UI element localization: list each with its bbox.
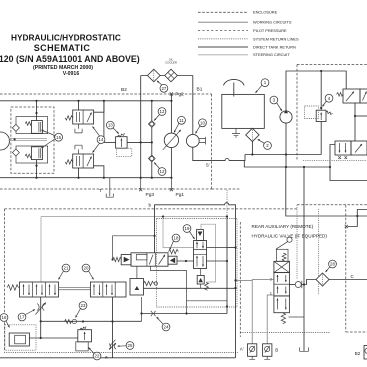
aux valve bottom spring <box>281 313 285 324</box>
rear aux enclosure right dashed <box>345 205 347 332</box>
svg-text:16: 16 <box>2 315 7 320</box>
damper 23 ball <box>72 319 76 323</box>
oil filter 16 dashed box <box>5 325 36 350</box>
svg-text:11: 11 <box>179 118 184 123</box>
junction dot strainer <box>251 153 253 155</box>
svg-text:V-0916: V-0916 <box>63 71 80 77</box>
priority valve arrows <box>339 143 341 153</box>
towing lower feed <box>78 168 80 178</box>
shuttle column wire <box>151 101 153 178</box>
svg-text:COOLER: COOLER <box>165 61 177 65</box>
bubble 18 <box>170 234 180 250</box>
svg-text:12: 12 <box>160 169 165 174</box>
bubble 12 upper <box>154 108 166 121</box>
filter 28 outlet wire <box>329 279 367 281</box>
motor case drain wire <box>193 147 245 160</box>
bubble 28 <box>326 260 337 272</box>
junction dot relief lower <box>35 165 37 167</box>
valve 18 window <box>136 255 147 260</box>
valve18 to valve19 wire <box>177 260 194 262</box>
b supply wire <box>155 203 236 358</box>
svg-text:ENCLOSURE: ENCLOSURE <box>253 10 278 15</box>
valve 21 spool arrows <box>23 285 25 296</box>
svg-text:WORKING CIRCUITS: WORKING CIRCUITS <box>253 20 292 25</box>
drive motor circle <box>186 134 199 147</box>
junction dot relief upper <box>35 112 37 114</box>
aux feed port x <box>345 225 348 228</box>
drive pump variable arrow <box>163 130 181 150</box>
bubble 25 <box>118 342 134 350</box>
junction dot relief4 top <box>320 107 322 109</box>
svg-text:DIRECT TANK RETURN: DIRECT TANK RETURN <box>253 44 296 49</box>
check valve ball <box>295 282 301 288</box>
hydrostatic enclosure top dashed <box>0 93 212 95</box>
bubble 4 <box>323 94 333 106</box>
svg-text:Pg2: Pg2 <box>175 91 184 97</box>
bubble 2 <box>258 139 272 149</box>
gauge stub Pg3 <box>140 178 142 190</box>
junction dot charge top <box>320 70 322 72</box>
towing upper loop <box>94 101 104 112</box>
LEGEND <box>198 10 299 58</box>
tank drain stub <box>232 128 240 137</box>
aux branch up wire <box>357 210 367 217</box>
oil cooler diamond <box>165 69 178 82</box>
junction dot return cross <box>285 166 287 168</box>
reservoir breather arc <box>224 79 245 85</box>
bubble 24 <box>157 317 170 331</box>
solenoid valve 5 spring <box>337 93 344 97</box>
lower return wire <box>244 161 330 167</box>
valve 18 check cap <box>168 256 177 264</box>
relief valve upper body <box>31 121 42 134</box>
bubble 10 <box>196 119 207 134</box>
charge pump top wire <box>286 71 321 111</box>
valve 19 bypass wire <box>201 224 216 282</box>
valve 19 cap wire <box>200 269 202 276</box>
rear aux enclosure left dashed <box>239 222 241 337</box>
pilot dashed to right edge <box>297 204 367 206</box>
legend pilot pressure line <box>198 29 248 31</box>
junction dot valve5 <box>354 115 356 117</box>
valve 18 drain wire <box>150 266 186 313</box>
junction dot check outlet <box>303 283 305 285</box>
towing lower loop <box>94 166 104 178</box>
junction dot port2 branch <box>234 279 236 281</box>
bubble 22 <box>89 348 101 360</box>
bubble 3 <box>270 96 282 111</box>
valve 19 solenoid box <box>197 230 204 241</box>
aux body divider <box>274 283 290 285</box>
aux valve X box <box>274 261 290 272</box>
svg-text:B: B <box>275 348 278 353</box>
charge relief 13 left wire <box>104 141 116 143</box>
relief upper feed <box>36 101 38 121</box>
lower enclosure top dashed <box>5 208 298 210</box>
cooler bypass filter diamond <box>148 69 161 82</box>
priority valve bottom ports x <box>338 156 347 159</box>
charge relief 13 spring <box>118 133 125 137</box>
bubble 21 <box>59 264 70 279</box>
oil filter 16 inner rect <box>15 335 26 344</box>
legend direct tank return line <box>198 46 248 48</box>
svg-text:b: b <box>149 203 152 208</box>
junction dots hydro top <box>35 100 172 102</box>
svg-text:13: 13 <box>108 123 113 128</box>
bottom return wire <box>41 320 142 322</box>
svg-text:15: 15 <box>56 135 61 140</box>
charge relief 13 box <box>116 137 128 149</box>
inner control valve dashed box <box>157 219 238 308</box>
svg-text:REAR AUXILIARY (REMOTE): REAR AUXILIARY (REMOTE) <box>252 224 314 229</box>
aux valve body upper <box>274 273 290 296</box>
towing upper feed <box>78 101 80 110</box>
hydrostatic drive pump <box>164 133 178 147</box>
svg-text:A': A' <box>240 347 244 352</box>
aux X cross <box>274 261 290 272</box>
bubble 13 <box>106 121 118 133</box>
solenoid valve 5 box right <box>360 89 367 103</box>
hydrostatic enclosure right dashed <box>211 94 213 189</box>
drain loop top wire <box>187 300 228 302</box>
aux return riser wire <box>303 167 305 285</box>
junction dot drop <box>40 320 42 322</box>
aux valve body lower <box>274 296 290 313</box>
charge relief 13 arrow <box>120 139 122 148</box>
svg-text:20: 20 <box>84 266 89 271</box>
breather stem <box>233 83 235 97</box>
valve 18 dividers <box>147 253 155 266</box>
valve 21 body <box>20 282 59 297</box>
junction dot priority drain <box>329 166 331 168</box>
port relief spring <box>144 281 154 285</box>
svg-text:SCHEMATIC: SCHEMATIC <box>34 43 91 53</box>
svg-text:25: 25 <box>128 343 133 348</box>
port 2 branch wire <box>236 279 253 281</box>
lower enclosure bottom solid <box>0 357 236 359</box>
junction dot aux feed <box>356 215 358 217</box>
ENCLOSURES <box>0 65 367 358</box>
charge relief 4 spring <box>326 111 333 114</box>
hydrostatic enclosure bottom dashed <box>0 188 212 190</box>
svg-text:14: 14 <box>99 137 104 142</box>
svg-text:S': S' <box>206 163 210 168</box>
filter 28 dashes <box>322 275 324 285</box>
clipped coupler B2 circle <box>365 348 367 353</box>
charge pump triangle <box>284 110 288 113</box>
junction dot drop lower <box>40 337 42 339</box>
pilot dashed continuation right of enclosure <box>212 188 240 190</box>
spring drain wire <box>289 316 305 318</box>
junction dot servo <box>14 138 16 140</box>
valve 20 body <box>90 282 126 297</box>
towing valve lower box <box>73 154 94 168</box>
oil cooler wire <box>141 75 193 77</box>
svg-text:T120 (S/N A59A11001 AND ABOVE): T120 (S/N A59A11001 AND ABOVE) <box>0 54 140 64</box>
rear aux dashed left vertical <box>296 205 298 280</box>
tank stub T <box>106 178 113 198</box>
svg-text:C: C <box>351 274 355 279</box>
valve 19 bottom cap <box>197 276 204 285</box>
valve 20 dividers <box>103 282 115 297</box>
charge pump outlet wire <box>285 123 287 167</box>
bubble 15 <box>42 130 63 148</box>
svg-text:19: 19 <box>185 226 190 231</box>
towing lower spool lines <box>76 156 79 166</box>
svg-text:28: 28 <box>330 262 335 267</box>
valve 20 spool arrows <box>93 285 95 296</box>
towing valve lower divider <box>82 154 84 168</box>
suction strainer diamond <box>246 128 259 141</box>
valve 19 cap triangle <box>198 278 203 282</box>
pump feed wire Pg2 <box>170 94 172 133</box>
lower enclosure bottom dashed <box>4 352 238 354</box>
motor shaft <box>199 137 205 145</box>
valve 19 spool arrows <box>196 242 198 249</box>
orifice 24 <box>151 311 156 316</box>
charge relief 4 box <box>316 110 326 121</box>
valve 19 feed wire <box>207 247 228 249</box>
valve 18 solenoid coil <box>113 257 122 261</box>
towing valve lower spring <box>65 160 72 164</box>
steering gray branch <box>163 217 194 248</box>
servo gray line upper <box>9 138 48 140</box>
steering priority valve box right <box>351 141 367 155</box>
strainer dashes <box>251 130 253 140</box>
junction dot return riser top <box>303 166 305 168</box>
control pilot dashed drop <box>226 190 228 217</box>
port relief out wire <box>144 287 236 289</box>
strainer outlet wire <box>251 142 253 155</box>
charge relief 13 pilot dashed box <box>117 148 132 156</box>
valve 21 dividers <box>33 282 46 297</box>
bubble 14 <box>93 127 105 153</box>
aux lever arm <box>276 242 288 250</box>
valve 5 arrows <box>346 92 354 102</box>
junction dot pilot branch <box>153 235 155 237</box>
bubble 16 <box>0 314 9 328</box>
gauge port Pg1 x <box>170 188 173 191</box>
check valve seat <box>301 281 303 288</box>
aux lever knob <box>287 237 292 242</box>
svg-text:24: 24 <box>164 325 169 330</box>
check diamond lower <box>12 149 19 156</box>
control feed column wire <box>226 217 228 314</box>
relief 22 arrow <box>84 332 86 340</box>
towing upper spool lines <box>76 112 79 122</box>
aux body arrows lower <box>277 299 279 310</box>
check valve inlet wire <box>289 284 295 286</box>
junction dots hydro mid <box>140 141 153 143</box>
pump group dashed box <box>11 107 54 173</box>
charge relief 4 arrow <box>320 113 322 121</box>
coupler B foot <box>264 356 270 359</box>
valve 18 solenoid triangle <box>124 257 130 263</box>
RIGHT TOP <box>305 71 367 167</box>
valve 18 spring <box>169 249 179 253</box>
svg-text:Pg1: Pg1 <box>176 192 185 198</box>
aux body arrows upper <box>277 275 279 282</box>
relief manifold lower outline <box>16 146 48 163</box>
orifice wire lower <box>142 313 228 315</box>
relief lower spool lines <box>39 148 41 158</box>
bubble 1 <box>256 79 269 93</box>
RETURN LINES <box>244 153 367 295</box>
svg-text:HYDRAULIC VALVE (IF EQUIPPED): HYDRAULIC VALVE (IF EQUIPPED) <box>252 234 328 239</box>
valve 21 spring <box>7 285 19 291</box>
junction dot supply col lower <box>234 287 236 289</box>
valve 18 solenoid box <box>121 255 131 265</box>
svg-text:23: 23 <box>81 303 86 308</box>
relief valve lower body <box>31 147 42 160</box>
steering gray wire horizontal <box>41 216 227 218</box>
oil filter 16 outer rect <box>9 333 29 346</box>
svg-text:2: 2 <box>270 277 273 282</box>
gauge stub Pg1 <box>170 178 172 190</box>
B2 wire vertical <box>140 76 142 178</box>
valve 21 drop wire <box>40 297 42 338</box>
towing upper drain glyph <box>75 124 82 133</box>
valve 19 divider <box>194 249 207 254</box>
towing valve upper box <box>73 110 94 124</box>
case drain filter 28 diamond <box>316 273 329 286</box>
charge pump circle <box>280 111 292 123</box>
relief 22 spring <box>80 326 86 329</box>
svg-text:21: 21 <box>64 266 69 271</box>
coupler A circle <box>250 346 255 351</box>
svg-text:SYSTEM RETURN LINES: SYSTEM RETURN LINES <box>253 36 299 41</box>
svg-text:12: 12 <box>160 109 165 114</box>
charge relief 4 outlet <box>320 122 322 155</box>
rear aux enclosure corner dashed <box>346 331 367 333</box>
clipped coupler B2 box <box>364 346 367 360</box>
valve 18 spool arrows <box>159 255 166 265</box>
return wire bottom <box>0 177 171 179</box>
steering enclosure top dashed <box>297 64 367 66</box>
relief 22 box <box>78 330 92 342</box>
towing valve upper spring <box>65 116 72 120</box>
svg-text:B2: B2 <box>355 351 361 356</box>
coupler B box <box>263 344 272 357</box>
bubble 27 <box>157 81 168 92</box>
svg-text:a: a <box>105 354 108 359</box>
rear aux dashed mid vertical <box>318 209 320 295</box>
pilot branch wire to valve 18 solenoid <box>113 236 155 260</box>
relief 22 lower box <box>76 342 88 351</box>
svg-text:27: 27 <box>161 86 166 91</box>
aux valve stem box <box>276 249 288 261</box>
filter diamond dashes <box>153 71 155 81</box>
svg-text:STEERING CIRCUIT: STEERING CIRCUIT <box>253 52 290 57</box>
port relief triangle <box>135 286 140 290</box>
feed wire extension <box>227 247 236 249</box>
port 2 wire <box>252 280 274 344</box>
restrictor 25 <box>109 340 116 350</box>
charge supply wire top <box>0 100 171 102</box>
REAR AUX <box>227 224 367 359</box>
coupler A foot <box>249 356 255 359</box>
valve 19 body <box>194 241 207 269</box>
check valve outlet wire <box>302 280 316 285</box>
gauge port Pg2 x <box>170 92 173 95</box>
steering gray wire vertical <box>40 217 42 283</box>
charge relief 13 right wire <box>127 141 152 143</box>
lower enclosure left dashed <box>4 209 6 352</box>
coupler A box <box>248 344 257 357</box>
junction dot charge pump <box>285 153 287 155</box>
legend steering circuit line <box>198 54 248 56</box>
tank glyph aux <box>300 347 309 351</box>
port 1 wire <box>267 295 274 344</box>
servo gray line lower <box>9 140 48 142</box>
junction dot supply col upper <box>234 246 236 248</box>
valve 19 right wire <box>207 260 228 262</box>
aux supply drop wire <box>286 167 367 216</box>
steering priority valve box left <box>335 141 351 155</box>
valve 5 branch wire <box>355 115 367 117</box>
svg-text:(PRINTED MARCH 2000): (PRINTED MARCH 2000) <box>33 65 93 71</box>
bubble 23 <box>76 302 87 318</box>
svg-text:PILOT PRESSURE: PILOT PRESSURE <box>253 28 287 33</box>
aux stem spring <box>282 253 286 261</box>
relief manifold upper outline <box>16 117 48 134</box>
legend enclosure line <box>198 11 248 13</box>
TANK AND CHARGE <box>222 70 323 167</box>
relief drain wire <box>141 297 143 322</box>
flow restrictor 17 <box>35 303 46 315</box>
port relief feed stub <box>136 266 138 278</box>
charge relief 4 pilot dashed box <box>305 106 319 119</box>
shuttle valve lower <box>148 155 155 162</box>
legend working circuits line <box>198 21 248 23</box>
pilot column wire <box>103 101 105 143</box>
steering enclosure left dashed <box>296 65 298 161</box>
priority valve left wire <box>330 145 335 168</box>
relief lower feed <box>36 160 38 178</box>
svg-text:HYDRAULIC/HYDROSTATIC: HYDRAULIC/HYDROSTATIC <box>11 33 121 43</box>
svg-text:17: 17 <box>20 315 25 320</box>
reservoir tank box <box>222 94 264 128</box>
valve 5 outlet wire <box>354 103 356 141</box>
bubble 11 <box>174 116 185 132</box>
LOWER SECTION <box>0 190 235 360</box>
bubble 19 <box>183 225 194 239</box>
charge line top wire <box>321 71 346 110</box>
return to aux wire <box>330 167 367 181</box>
HYDROSTATIC SECTION <box>0 57 245 207</box>
relief upper spool lines <box>39 122 41 132</box>
hydrostatic pump circle left clipped <box>0 132 10 150</box>
bubble 20 <box>82 264 93 279</box>
svg-text:B2: B2 <box>121 87 127 93</box>
B1 wire vertical <box>192 76 194 135</box>
valve 18 body <box>131 253 168 266</box>
coupler A slash <box>250 346 255 353</box>
svg-text:B1: B1 <box>197 87 203 93</box>
valve 19 solenoid triangle <box>198 232 203 237</box>
gauge port Pg3 x <box>139 188 142 191</box>
coupler B circle <box>265 346 270 351</box>
oil cooler diamond cross <box>168 73 174 79</box>
towing lower drain glyph <box>75 145 82 154</box>
svg-text:T: T <box>99 188 102 194</box>
TITLE BLOCK <box>0 33 140 77</box>
valve 18 check triangle <box>170 258 175 264</box>
bubble 17 <box>18 310 35 321</box>
main return wire A <box>245 154 321 156</box>
junction dots hydro bottom <box>35 177 172 179</box>
valve 19 spring <box>205 283 209 291</box>
